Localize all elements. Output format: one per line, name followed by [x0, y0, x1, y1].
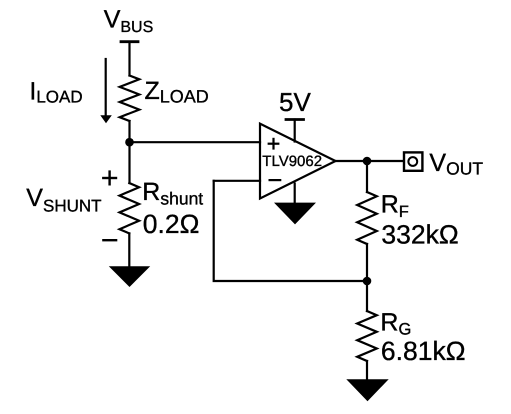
svg-text:0.2Ω: 0.2Ω — [143, 209, 200, 239]
svg-text:332kΩ: 332kΩ — [381, 220, 458, 250]
svg-text:TLV9062: TLV9062 — [262, 153, 322, 170]
svg-text:6.81kΩ: 6.81kΩ — [381, 336, 466, 366]
svg-text:5V: 5V — [279, 87, 311, 117]
